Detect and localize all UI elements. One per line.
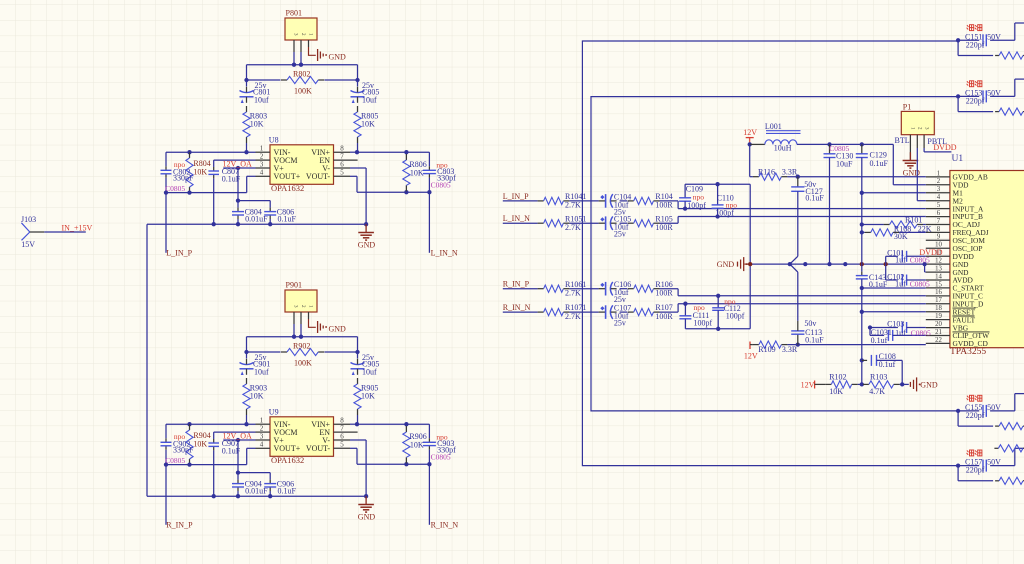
svg-text:0.1uF: 0.1uF bbox=[222, 447, 241, 456]
svg-text:16: 16 bbox=[935, 289, 942, 296]
svg-text:9: 9 bbox=[937, 234, 941, 241]
svg-text:R_IN_P: R_IN_P bbox=[166, 520, 193, 529]
svg-text:20: 20 bbox=[935, 321, 942, 328]
svg-text:3: 3 bbox=[260, 432, 264, 440]
svg-text:0.1uF: 0.1uF bbox=[278, 487, 297, 496]
svg-text:2.7K: 2.7K bbox=[565, 312, 581, 321]
svg-text:10uf: 10uf bbox=[362, 368, 377, 377]
svg-text:1: 1 bbox=[260, 145, 264, 153]
svg-text:4: 4 bbox=[260, 441, 264, 449]
svg-text:100R: 100R bbox=[655, 223, 673, 232]
svg-text:C0805: C0805 bbox=[910, 280, 930, 289]
svg-text:0.1uf: 0.1uf bbox=[871, 336, 888, 345]
svg-text:0.1uF: 0.1uF bbox=[869, 280, 888, 289]
svg-text:19: 19 bbox=[935, 313, 942, 320]
svg-text:21: 21 bbox=[935, 329, 942, 336]
svg-text:10K: 10K bbox=[829, 387, 843, 396]
svg-text:0.01uF: 0.01uF bbox=[245, 487, 268, 496]
svg-text:GND: GND bbox=[717, 260, 735, 269]
svg-text:3.3R: 3.3R bbox=[782, 167, 798, 176]
svg-text:C0805: C0805 bbox=[431, 181, 451, 190]
svg-text:12V: 12V bbox=[743, 128, 757, 137]
svg-text:220pf: 220pf bbox=[966, 411, 985, 420]
svg-text:5: 5 bbox=[937, 202, 941, 209]
svg-text:4.7K: 4.7K bbox=[869, 387, 885, 396]
svg-text:GVDD_CD: GVDD_CD bbox=[953, 339, 989, 348]
svg-text:5: 5 bbox=[340, 441, 344, 449]
svg-text:R101: R101 bbox=[905, 215, 922, 224]
svg-text:100pf: 100pf bbox=[694, 319, 713, 328]
svg-text:100pf: 100pf bbox=[726, 312, 745, 321]
svg-text:220pf: 220pf bbox=[966, 40, 985, 49]
svg-text:U8: U8 bbox=[269, 135, 279, 144]
svg-text:10K: 10K bbox=[361, 391, 375, 400]
svg-text:8: 8 bbox=[340, 417, 344, 425]
svg-text:25v: 25v bbox=[614, 230, 626, 239]
svg-text:17: 17 bbox=[935, 297, 942, 304]
svg-text:10K: 10K bbox=[250, 391, 264, 400]
svg-text:25v: 25v bbox=[614, 319, 626, 328]
svg-text:13: 13 bbox=[935, 266, 942, 273]
svg-text:OPA1632: OPA1632 bbox=[271, 183, 304, 193]
svg-text:0.1uF: 0.1uF bbox=[278, 215, 297, 224]
svg-text:7: 7 bbox=[340, 152, 344, 160]
svg-text:BTL: BTL bbox=[895, 136, 910, 145]
svg-text:R_IN_N: R_IN_N bbox=[431, 520, 459, 529]
svg-text:L_IN_N: L_IN_N bbox=[503, 214, 530, 223]
svg-text:P801: P801 bbox=[286, 9, 302, 18]
svg-text:10uH: 10uH bbox=[774, 144, 792, 153]
svg-text:R_IN_P: R_IN_P bbox=[503, 280, 530, 289]
svg-text:3: 3 bbox=[260, 160, 264, 168]
svg-text:10uf: 10uf bbox=[254, 96, 269, 105]
svg-text:0.1uf: 0.1uf bbox=[879, 360, 896, 369]
svg-text:2: 2 bbox=[260, 152, 264, 160]
svg-text:1uf: 1uf bbox=[895, 256, 906, 265]
svg-text:GND: GND bbox=[358, 240, 376, 249]
svg-text:U1: U1 bbox=[952, 154, 964, 164]
svg-text:PBTL: PBTL bbox=[927, 137, 947, 146]
svg-text:IN_+15V: IN_+15V bbox=[62, 224, 93, 233]
svg-text:2.7K: 2.7K bbox=[565, 288, 581, 297]
svg-text:C0805: C0805 bbox=[165, 456, 185, 465]
svg-text:4: 4 bbox=[937, 194, 941, 201]
svg-text:GND: GND bbox=[358, 512, 376, 521]
svg-text:100pf: 100pf bbox=[687, 201, 706, 210]
svg-text:10uf: 10uf bbox=[362, 96, 377, 105]
svg-text:U9: U9 bbox=[269, 407, 279, 416]
svg-text:VOUT+: VOUT+ bbox=[274, 444, 301, 453]
svg-text:330pF: 330pF bbox=[173, 174, 194, 183]
svg-text:GND: GND bbox=[920, 380, 938, 389]
svg-text:220pf: 220pf bbox=[966, 466, 985, 475]
svg-text:2.7K: 2.7K bbox=[565, 223, 581, 232]
svg-text:100R: 100R bbox=[655, 201, 673, 210]
svg-text:0.1uF: 0.1uF bbox=[870, 159, 889, 168]
svg-text:L001: L001 bbox=[765, 122, 782, 131]
svg-text:3.3R: 3.3R bbox=[782, 345, 798, 354]
svg-text:50V: 50V bbox=[987, 89, 1001, 98]
svg-text:100pf: 100pf bbox=[715, 208, 734, 217]
svg-text:8: 8 bbox=[937, 226, 941, 233]
svg-text:0.1uF: 0.1uF bbox=[222, 175, 241, 184]
svg-text:6: 6 bbox=[937, 210, 941, 217]
svg-text:100K: 100K bbox=[294, 359, 312, 368]
svg-text:220pf: 220pf bbox=[966, 97, 985, 106]
svg-text:100K: 100K bbox=[294, 87, 312, 96]
svg-text:J103: J103 bbox=[21, 215, 36, 224]
svg-text:15: 15 bbox=[935, 281, 942, 288]
svg-text:10K: 10K bbox=[193, 167, 207, 176]
svg-text:6: 6 bbox=[340, 160, 344, 168]
svg-text:12: 12 bbox=[935, 258, 942, 265]
svg-text:R109: R109 bbox=[758, 345, 775, 354]
svg-text:4: 4 bbox=[260, 169, 264, 177]
svg-text:TPA3255: TPA3255 bbox=[950, 347, 986, 357]
svg-text:0.1uF: 0.1uF bbox=[805, 335, 824, 344]
svg-text:R116: R116 bbox=[758, 167, 775, 176]
svg-text:50V: 50V bbox=[987, 403, 1001, 412]
svg-text:2: 2 bbox=[260, 424, 264, 432]
svg-text:C0805: C0805 bbox=[431, 453, 451, 462]
svg-text:7: 7 bbox=[937, 218, 941, 225]
svg-text:R102: R102 bbox=[829, 373, 846, 382]
svg-text:12V: 12V bbox=[801, 380, 815, 389]
svg-text:P901: P901 bbox=[286, 281, 302, 290]
svg-text:GND: GND bbox=[329, 325, 347, 334]
svg-text:14: 14 bbox=[935, 273, 942, 280]
svg-text:GND: GND bbox=[329, 53, 347, 62]
svg-text:1: 1 bbox=[260, 417, 264, 425]
svg-text:L_IN_P: L_IN_P bbox=[166, 248, 192, 257]
svg-text:VOUT-: VOUT- bbox=[306, 444, 330, 453]
svg-text:30K: 30K bbox=[894, 232, 908, 241]
svg-text:R802: R802 bbox=[293, 70, 310, 79]
svg-text:10K: 10K bbox=[361, 119, 375, 128]
svg-text:R902: R902 bbox=[293, 342, 310, 351]
svg-text:15V: 15V bbox=[21, 240, 35, 249]
svg-text:100R: 100R bbox=[655, 288, 673, 297]
svg-text:10uF: 10uF bbox=[836, 159, 853, 168]
svg-text:10uf: 10uf bbox=[254, 368, 269, 377]
svg-text:1: 1 bbox=[937, 170, 940, 177]
svg-text:330pF: 330pF bbox=[173, 446, 194, 455]
svg-text:50V: 50V bbox=[987, 32, 1001, 41]
svg-text:10K: 10K bbox=[410, 440, 424, 449]
svg-text:2.7K: 2.7K bbox=[565, 201, 581, 210]
svg-text:50V: 50V bbox=[987, 458, 1001, 467]
svg-text:0.01uF: 0.01uF bbox=[245, 215, 268, 224]
svg-text:P1: P1 bbox=[903, 103, 911, 112]
svg-text:L_IN_N: L_IN_N bbox=[431, 248, 458, 257]
svg-text:C0805: C0805 bbox=[911, 329, 931, 338]
svg-text:VOUT+: VOUT+ bbox=[274, 172, 301, 181]
svg-text:100R: 100R bbox=[655, 312, 673, 321]
svg-text:5: 5 bbox=[340, 169, 344, 177]
svg-text:10K: 10K bbox=[410, 168, 424, 177]
svg-text:12V: 12V bbox=[744, 351, 758, 360]
svg-text:DVDD: DVDD bbox=[919, 248, 942, 257]
svg-text:10K: 10K bbox=[193, 439, 207, 448]
svg-text:6: 6 bbox=[340, 432, 344, 440]
svg-text:2: 2 bbox=[937, 178, 941, 185]
svg-text:1uf: 1uf bbox=[895, 329, 906, 338]
svg-text:L_IN_P: L_IN_P bbox=[503, 192, 529, 201]
svg-text:7: 7 bbox=[340, 424, 344, 432]
svg-text:3: 3 bbox=[937, 186, 941, 193]
svg-text:R_IN_N: R_IN_N bbox=[503, 303, 531, 312]
svg-text:C0805: C0805 bbox=[165, 184, 185, 193]
svg-text:8: 8 bbox=[340, 145, 344, 153]
svg-text:22: 22 bbox=[935, 337, 942, 344]
svg-text:0.1uF: 0.1uF bbox=[805, 194, 824, 203]
svg-text:VOUT-: VOUT- bbox=[306, 172, 330, 181]
svg-text:1uf: 1uf bbox=[895, 280, 906, 289]
svg-text:10K: 10K bbox=[250, 119, 264, 128]
svg-text:R103: R103 bbox=[870, 373, 887, 382]
svg-text:OPA1632: OPA1632 bbox=[271, 455, 304, 465]
svg-text:18: 18 bbox=[935, 305, 942, 312]
